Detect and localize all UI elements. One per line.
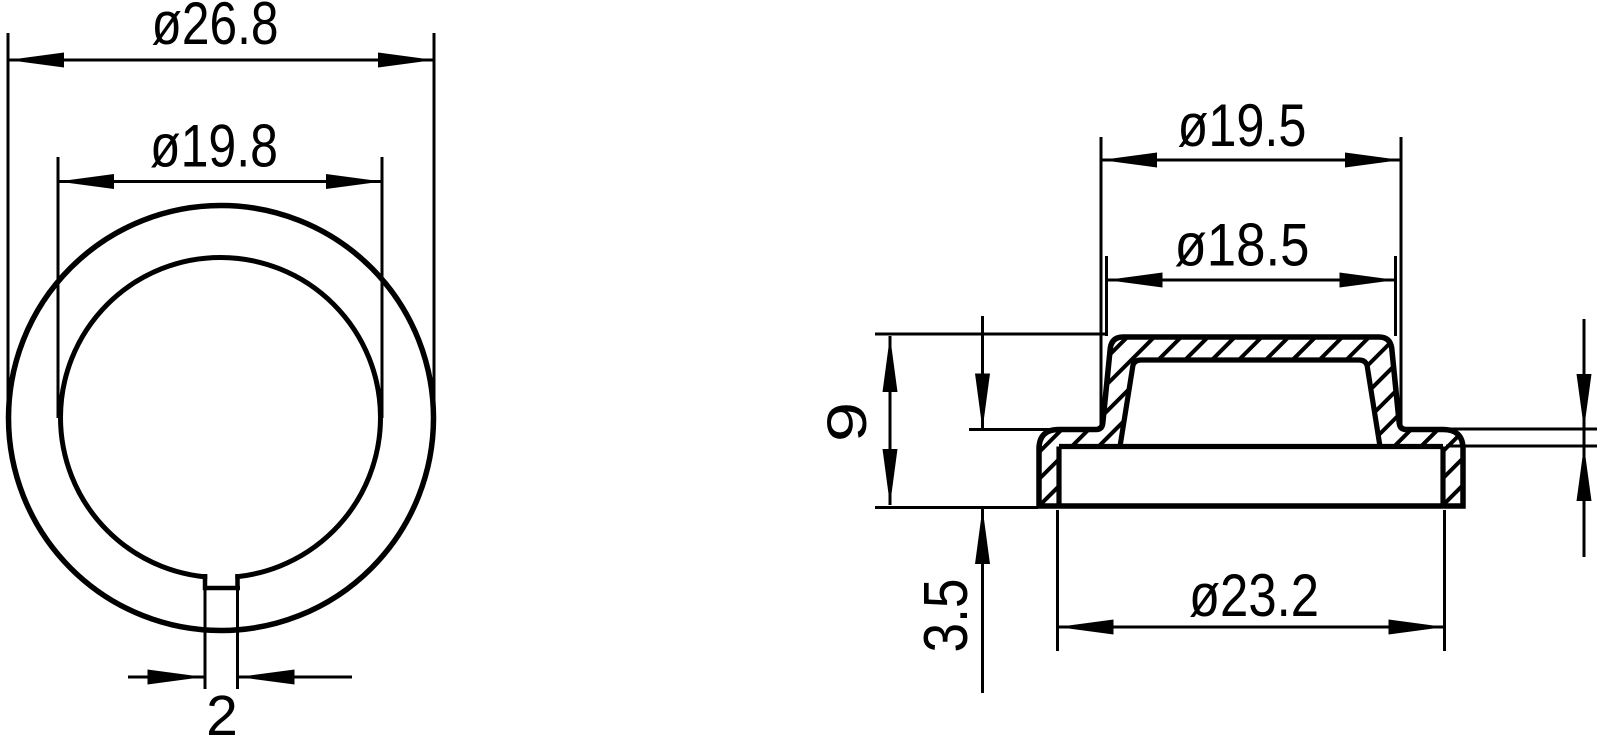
Ø18.5 right extension line — [1394, 256, 1397, 336]
Ø23.2 dimension line — [1058, 626, 1445, 629]
inner dome edge — [1120, 360, 1380, 447]
3.5 lower leader line — [981, 508, 984, 693]
9 bottom arrowhead — [883, 449, 898, 505]
slot bottom (object line) — [203, 586, 240, 591]
mask gap in inner circle at slot — [207, 565, 235, 586]
Ø18.5 left arrowhead — [1107, 273, 1163, 288]
Ø19.8 left arrowhead — [58, 174, 114, 189]
Ø26.8 left extension line — [7, 33, 10, 419]
svg-text:9: 9 — [815, 402, 878, 442]
svg-text:ø26.8: ø26.8 — [152, 0, 279, 57]
slot left side (object line) — [203, 574, 208, 590]
Ø23.2 left extension line — [1056, 510, 1059, 651]
skirt inner wall right — [1440, 447, 1445, 507]
wall thickness upper arrowhead — [1577, 374, 1592, 429]
svg-text:ø19.5: ø19.5 — [1178, 92, 1307, 159]
Ø18.5 dimension line — [1107, 279, 1396, 282]
inner ceiling edge — [1059, 444, 1443, 449]
section hatch fill — [1039, 337, 1463, 506]
bottom reference extension line — [875, 506, 1038, 509]
wall thickness lower reference line — [1446, 445, 1597, 448]
Ø26.8 left arrowhead — [8, 53, 64, 68]
Ø26.8 right extension line — [433, 33, 436, 419]
3.5 upper arrowhead — [975, 374, 990, 430]
Ø26.8 right arrowhead — [378, 53, 434, 68]
top reference extension line — [875, 333, 1106, 336]
svg-text:ø18.5: ø18.5 — [1175, 212, 1310, 279]
Ø18.5 left extension line — [1105, 256, 1108, 336]
Ø18.5 right arrowhead — [1340, 273, 1396, 288]
3.5 upper leader line — [981, 316, 984, 430]
Ø19.8 right extension line — [381, 157, 384, 418]
svg-text:ø23.2: ø23.2 — [1189, 562, 1319, 629]
Ø19.8 left extension line — [57, 157, 60, 418]
slot right side (object line) — [235, 574, 240, 590]
3.5 lower arrowhead — [975, 508, 990, 564]
Ø23.2 right arrowhead — [1389, 620, 1445, 635]
Ø23.2 right extension line — [1443, 510, 1446, 651]
Ø26.8 dimension line — [8, 59, 434, 62]
2 left arrowhead — [148, 670, 204, 685]
wall thickness lower arrowhead — [1577, 446, 1592, 501]
skirt inner wall left — [1056, 447, 1061, 507]
9 dimension line — [889, 336, 892, 505]
9 top arrowhead — [883, 336, 898, 392]
Ø19.8 dimension line — [58, 180, 382, 183]
svg-text:ø19.8: ø19.8 — [150, 113, 278, 180]
Ø19.5 left arrowhead — [1101, 153, 1157, 168]
Ø19.5 right extension line — [1400, 137, 1403, 428]
wall thickness leader line — [1583, 319, 1586, 557]
2 dimension line right segment — [239, 676, 353, 679]
inner circle (Ø19.8 bore) — [61, 258, 381, 578]
outer circle (Ø26.8 rim) — [9, 206, 434, 631]
svg-text:3.5: 3.5 — [912, 579, 981, 653]
2 right arrowhead — [239, 670, 295, 685]
wall thickness upper reference line — [1450, 428, 1597, 431]
Ø19.8 right arrowhead — [326, 174, 382, 189]
svg-text:2: 2 — [206, 684, 238, 741]
Ø19.5 dimension line — [1101, 159, 1401, 162]
flange-top reference extension line — [969, 428, 1101, 431]
Ø19.5 left extension line — [1100, 137, 1103, 428]
Ø23.2 left arrowhead — [1058, 620, 1114, 635]
outer profile of section — [1039, 337, 1463, 506]
Ø19.5 right arrowhead — [1345, 153, 1401, 168]
slot right extension line — [236, 574, 239, 689]
2 dimension line left segment — [128, 676, 204, 679]
slot left extension line — [204, 574, 207, 689]
